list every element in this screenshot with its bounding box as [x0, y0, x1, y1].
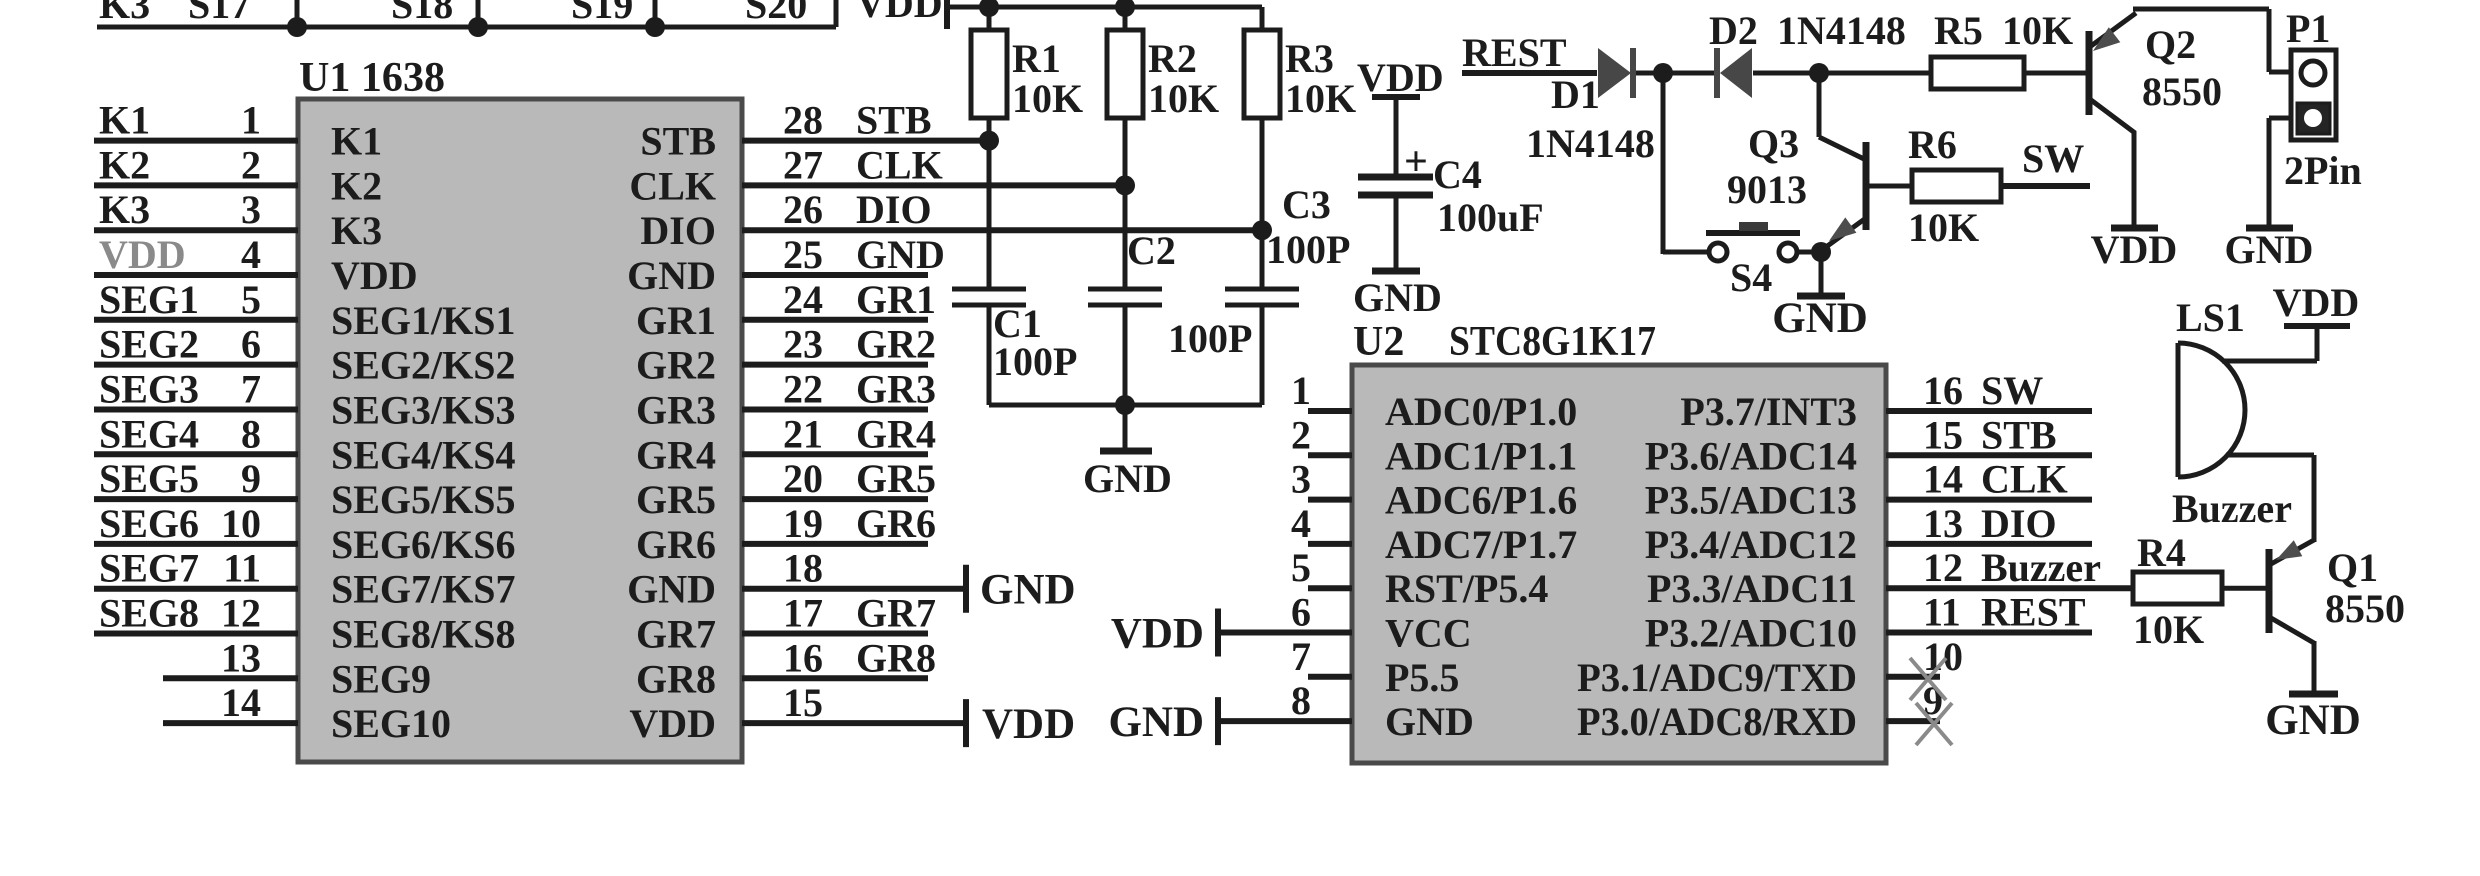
- svg-text:10K: 10K: [1148, 76, 1219, 121]
- svg-text:P1: P1: [2286, 6, 2330, 51]
- svg-text:VCC: VCC: [1385, 611, 1472, 656]
- svg-text:P5.5: P5.5: [1385, 655, 1459, 700]
- svg-text:12: 12: [1923, 545, 1963, 590]
- svg-text:24: 24: [783, 277, 823, 322]
- svg-text:U1 1638: U1 1638: [299, 55, 445, 101]
- svg-text:Q2: Q2: [2145, 22, 2196, 67]
- svg-text:K2: K2: [331, 163, 382, 208]
- svg-text:STB: STB: [1981, 412, 2057, 457]
- svg-text:K1: K1: [99, 98, 150, 143]
- svg-text:23: 23: [783, 322, 823, 367]
- svg-text:K1: K1: [331, 119, 382, 164]
- svg-text:GR2: GR2: [636, 343, 716, 388]
- svg-text:S17: S17: [188, 0, 250, 27]
- svg-text:14: 14: [221, 680, 261, 725]
- svg-text:D1: D1: [1551, 72, 1600, 117]
- svg-text:4: 4: [241, 232, 261, 277]
- svg-text:C2: C2: [1127, 228, 1176, 273]
- svg-text:SEG8/KS8: SEG8/KS8: [331, 612, 516, 657]
- svg-text:CLK: CLK: [629, 163, 716, 208]
- svg-text:GR5: GR5: [636, 477, 716, 522]
- svg-text:100uF: 100uF: [1437, 195, 1544, 240]
- svg-text:9: 9: [241, 456, 261, 501]
- svg-text:GR1: GR1: [856, 277, 936, 322]
- svg-text:P3.1/ADC9/TXD: P3.1/ADC9/TXD: [1577, 655, 1857, 700]
- svg-text:K2: K2: [99, 142, 150, 187]
- svg-text:GR3: GR3: [636, 388, 716, 433]
- svg-text:VDD: VDD: [629, 701, 716, 746]
- svg-text:10K: 10K: [1285, 76, 1356, 121]
- svg-text:6: 6: [241, 322, 261, 367]
- svg-text:GR2: GR2: [856, 322, 936, 367]
- svg-text:100P: 100P: [1266, 227, 1350, 272]
- svg-text:5: 5: [1291, 545, 1311, 590]
- svg-text:R6: R6: [1908, 122, 1957, 167]
- svg-text:REST: REST: [1981, 590, 2086, 635]
- svg-text:VDD: VDD: [856, 0, 943, 26]
- svg-text:1N4148: 1N4148: [1526, 121, 1655, 166]
- svg-text:VDD: VDD: [2273, 280, 2360, 325]
- svg-text:VDD: VDD: [982, 701, 1075, 748]
- svg-text:GR1: GR1: [636, 298, 716, 343]
- svg-text:STC8G1K17: STC8G1K17: [1449, 319, 1656, 365]
- svg-text:12: 12: [221, 591, 261, 636]
- svg-text:28: 28: [783, 98, 823, 143]
- svg-text:14: 14: [1923, 457, 1963, 502]
- svg-text:K3: K3: [99, 187, 150, 232]
- svg-text:8550: 8550: [2142, 69, 2222, 114]
- svg-text:22: 22: [783, 367, 823, 412]
- svg-text:R5: R5: [1934, 8, 1983, 53]
- svg-text:Buzzer: Buzzer: [1981, 545, 2101, 590]
- svg-text:GR8: GR8: [636, 656, 716, 701]
- svg-text:STB: STB: [856, 98, 932, 143]
- svg-text:DIO: DIO: [856, 187, 932, 232]
- svg-text:GND: GND: [1353, 275, 1442, 320]
- svg-text:GR6: GR6: [636, 522, 716, 567]
- svg-text:SEG7: SEG7: [99, 546, 199, 591]
- svg-text:GND: GND: [980, 567, 1076, 614]
- svg-text:GR7: GR7: [856, 591, 936, 636]
- svg-text:SEG3: SEG3: [99, 367, 199, 412]
- svg-text:13: 13: [221, 635, 261, 680]
- svg-text:2: 2: [241, 142, 261, 187]
- svg-text:3: 3: [1291, 457, 1311, 502]
- svg-text:Q3: Q3: [1748, 121, 1799, 166]
- svg-text:9013: 9013: [1727, 167, 1807, 212]
- svg-text:SEG1: SEG1: [99, 277, 199, 322]
- svg-text:D2: D2: [1709, 8, 1758, 53]
- svg-text:1: 1: [1291, 368, 1311, 413]
- svg-text:GR3: GR3: [856, 367, 936, 412]
- svg-text:R2: R2: [1148, 36, 1197, 81]
- svg-text:STB: STB: [640, 119, 716, 164]
- svg-text:SEG5: SEG5: [99, 456, 199, 501]
- svg-text:SEG7/KS7: SEG7/KS7: [331, 567, 516, 612]
- svg-text:GR8: GR8: [856, 635, 936, 680]
- svg-text:DIO: DIO: [640, 208, 716, 253]
- svg-text:SEG4: SEG4: [99, 411, 199, 456]
- svg-text:SEG3/KS3: SEG3/KS3: [331, 388, 516, 433]
- svg-text:SEG10: SEG10: [331, 701, 451, 746]
- svg-text:R1: R1: [1012, 36, 1061, 81]
- svg-text:DIO: DIO: [1981, 501, 2057, 546]
- svg-text:8: 8: [1291, 678, 1311, 723]
- svg-text:P3.3/ADC11: P3.3/ADC11: [1647, 566, 1857, 611]
- svg-text:16: 16: [783, 635, 823, 680]
- svg-text:VDD: VDD: [1111, 611, 1204, 658]
- svg-text:S19: S19: [571, 0, 633, 27]
- svg-text:SEG5/KS5: SEG5/KS5: [331, 477, 516, 522]
- svg-text:SW: SW: [1981, 368, 2043, 413]
- svg-text:S4: S4: [1730, 255, 1772, 300]
- svg-text:CLK: CLK: [856, 142, 943, 187]
- svg-text:K3: K3: [331, 208, 382, 253]
- svg-text:10: 10: [1923, 634, 1963, 679]
- svg-text:7: 7: [1291, 634, 1311, 679]
- svg-text:VDD: VDD: [99, 232, 186, 277]
- svg-text:11: 11: [223, 546, 261, 591]
- svg-text:Buzzer: Buzzer: [2172, 486, 2292, 531]
- svg-text:16: 16: [1923, 368, 1963, 413]
- svg-text:SEG9: SEG9: [331, 656, 431, 701]
- svg-text:20: 20: [783, 456, 823, 501]
- svg-text:SEG8: SEG8: [99, 591, 199, 636]
- svg-text:100P: 100P: [1168, 316, 1252, 361]
- svg-text:ADC7/P1.7: ADC7/P1.7: [1385, 522, 1577, 567]
- svg-text:26: 26: [783, 187, 823, 232]
- svg-text:VDD: VDD: [1357, 55, 1444, 100]
- svg-text:10K: 10K: [1012, 76, 1083, 121]
- svg-text:K3: K3: [99, 0, 150, 27]
- svg-text:6: 6: [1291, 590, 1311, 635]
- svg-text:17: 17: [783, 591, 823, 636]
- svg-text:10K: 10K: [1908, 205, 1979, 250]
- svg-text:2Pin: 2Pin: [2284, 148, 2362, 193]
- svg-text:SEG6/KS6: SEG6/KS6: [331, 522, 516, 567]
- svg-text:5: 5: [241, 277, 261, 322]
- svg-text:100P: 100P: [993, 339, 1077, 384]
- svg-text:1N4148: 1N4148: [1777, 8, 1906, 53]
- svg-text:13: 13: [1923, 501, 1963, 546]
- svg-text:19: 19: [783, 501, 823, 546]
- svg-text:GND: GND: [627, 567, 716, 612]
- svg-text:GND: GND: [627, 253, 716, 298]
- svg-text:GND: GND: [1385, 699, 1474, 744]
- svg-text:SW: SW: [2022, 136, 2084, 181]
- svg-text:R3: R3: [1285, 36, 1334, 81]
- svg-text:GND: GND: [2265, 697, 2361, 744]
- svg-text:SEG4/KS4: SEG4/KS4: [331, 432, 516, 477]
- svg-text:RST/P5.4: RST/P5.4: [1385, 566, 1548, 611]
- svg-text:GND: GND: [1772, 295, 1868, 342]
- svg-text:P3.4/ADC12: P3.4/ADC12: [1645, 522, 1857, 567]
- svg-text:4: 4: [1291, 501, 1311, 546]
- svg-text:25: 25: [783, 232, 823, 277]
- svg-text:S18: S18: [391, 0, 453, 27]
- svg-text:GND: GND: [2225, 227, 2314, 272]
- svg-text:GR4: GR4: [636, 432, 716, 477]
- svg-text:ADC6/P1.6: ADC6/P1.6: [1385, 478, 1577, 523]
- svg-text:GND: GND: [856, 232, 945, 277]
- svg-text:P3.6/ADC14: P3.6/ADC14: [1645, 433, 1857, 478]
- svg-text:GR5: GR5: [856, 456, 936, 501]
- svg-text:R4: R4: [2137, 530, 2186, 575]
- svg-text:C4: C4: [1433, 152, 1482, 197]
- svg-text:21: 21: [783, 411, 823, 456]
- svg-text:18: 18: [783, 546, 823, 591]
- svg-text:10K: 10K: [2002, 8, 2073, 53]
- svg-text:S20: S20: [745, 0, 807, 27]
- svg-text:CLK: CLK: [1981, 457, 2068, 502]
- svg-text:VDD: VDD: [2091, 227, 2178, 272]
- svg-text:SEG2/KS2: SEG2/KS2: [331, 343, 516, 388]
- svg-text:Q1: Q1: [2327, 545, 2378, 590]
- svg-text:P3.5/ADC13: P3.5/ADC13: [1645, 478, 1857, 523]
- svg-text:LS1: LS1: [2176, 295, 2245, 340]
- svg-text:8550: 8550: [2325, 586, 2405, 631]
- svg-text:P3.7/INT3: P3.7/INT3: [1680, 389, 1857, 434]
- svg-text:VDD: VDD: [331, 253, 418, 298]
- svg-text:GND: GND: [1083, 456, 1172, 501]
- svg-text:2: 2: [1291, 412, 1311, 457]
- svg-text:15: 15: [1923, 412, 1963, 457]
- svg-text:8: 8: [241, 411, 261, 456]
- svg-text:+: +: [1404, 139, 1428, 185]
- svg-text:ADC1/P1.1: ADC1/P1.1: [1385, 433, 1577, 478]
- svg-text:GR7: GR7: [636, 612, 716, 657]
- svg-text:GR4: GR4: [856, 411, 936, 456]
- svg-text:15: 15: [783, 680, 823, 725]
- svg-text:P3.0/ADC8/RXD: P3.0/ADC8/RXD: [1577, 699, 1857, 744]
- svg-text:3: 3: [241, 187, 261, 232]
- svg-text:P3.2/ADC10: P3.2/ADC10: [1645, 611, 1857, 656]
- svg-text:C3: C3: [1282, 182, 1331, 227]
- svg-text:11: 11: [1923, 590, 1961, 635]
- svg-text:GR6: GR6: [856, 501, 936, 546]
- svg-text:REST: REST: [1462, 30, 1567, 75]
- svg-text:SEG1/KS1: SEG1/KS1: [331, 298, 516, 343]
- svg-text:ADC0/P1.0: ADC0/P1.0: [1385, 389, 1577, 434]
- svg-text:7: 7: [241, 367, 261, 412]
- svg-text:GND: GND: [1108, 699, 1204, 746]
- svg-text:10: 10: [221, 501, 261, 546]
- svg-text:27: 27: [783, 142, 823, 187]
- svg-text:10K: 10K: [2133, 607, 2204, 652]
- svg-text:1: 1: [241, 98, 261, 143]
- svg-text:SEG2: SEG2: [99, 322, 199, 367]
- svg-text:U2: U2: [1353, 319, 1404, 365]
- svg-text:SEG6: SEG6: [99, 501, 199, 546]
